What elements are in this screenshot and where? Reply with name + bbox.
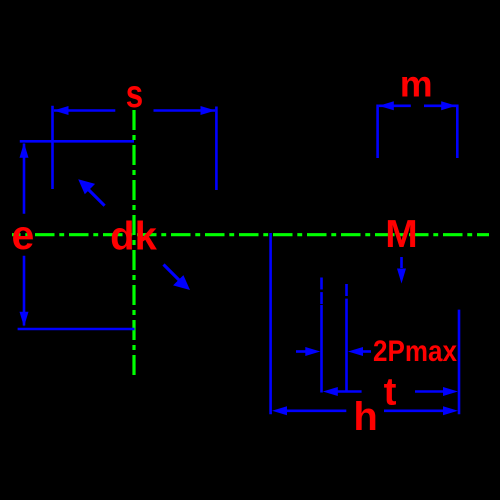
wire s-ext-right xyxy=(215,107,218,191)
wire h-dim-left xyxy=(287,409,347,412)
wire s-dim-right xyxy=(154,109,216,112)
svg-text:h: h xyxy=(353,395,377,439)
wire dk-leader-downright xyxy=(164,265,181,282)
wire 2p-arrow-left-tail xyxy=(296,350,308,353)
arrowhead M-down xyxy=(397,269,406,284)
svg-text:t: t xyxy=(384,370,397,413)
arrowhead e-down xyxy=(20,312,29,327)
wire m-ext-left xyxy=(376,105,379,159)
wire h-ext-left xyxy=(269,233,272,414)
arrowhead 2p-right (points right) xyxy=(305,347,320,356)
arrowhead s-right xyxy=(201,106,216,115)
wire t-dim-left xyxy=(336,390,362,393)
svg-text:2Pmax: 2Pmax xyxy=(373,335,458,368)
wire h-dim-right xyxy=(384,409,445,412)
arrowhead t-left xyxy=(323,387,338,396)
wire th-ext-right xyxy=(458,310,461,415)
arrowhead dk-downright xyxy=(173,275,190,290)
wire t-dim-right xyxy=(415,390,445,393)
wire m-ext-right xyxy=(456,105,459,159)
arrowhead 2p-left (points left) xyxy=(348,347,363,356)
svg-text:M: M xyxy=(385,213,418,256)
wire e-dim-upper xyxy=(23,144,26,214)
arrowhead dk-upleft xyxy=(78,179,95,194)
arrowhead h-right xyxy=(443,406,458,415)
arrowhead m-left xyxy=(379,101,394,110)
arrowhead s-left xyxy=(54,106,69,115)
wire s-dim-left xyxy=(54,109,115,112)
wire e-ext-top xyxy=(20,140,134,143)
wire m-dim-right xyxy=(424,105,456,108)
svg-text:dk: dk xyxy=(110,214,157,258)
centerline horizontal xyxy=(12,233,489,236)
arrowhead t-right xyxy=(443,387,458,396)
wire m-dim-left xyxy=(379,105,411,108)
arrowhead h-left xyxy=(272,406,287,415)
wire s-ext-left xyxy=(51,106,54,189)
wire dk-leader-upleft xyxy=(88,189,105,206)
arrowhead m-right xyxy=(441,101,456,110)
wire e-dim-lower xyxy=(23,256,26,326)
wire thread-left-solid xyxy=(320,305,323,393)
wire M-leader xyxy=(400,257,403,268)
wire e-ext-bottom xyxy=(18,328,135,331)
wire thread-right-solid xyxy=(345,309,348,391)
arrowhead e-up xyxy=(20,143,29,158)
svg-text:e: e xyxy=(11,212,34,258)
centerline vertical xyxy=(132,110,135,375)
wire 2p-arrow-right-tail xyxy=(361,350,371,353)
svg-text:m: m xyxy=(400,64,433,105)
svg-text:s: s xyxy=(126,73,143,116)
wire thread-left-dashed xyxy=(320,278,323,306)
wire thread-right-dashed xyxy=(345,284,348,309)
